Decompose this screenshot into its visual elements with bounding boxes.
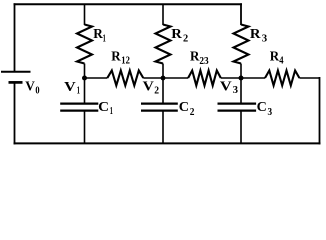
node V2 junction dot [161, 76, 166, 81]
svg-text:V: V [220, 79, 232, 94]
wire: column1 top stub [84, 4, 86, 25]
wire: node V2 down to C2 [162, 78, 164, 104]
wire: node V2 to R23 [163, 77, 188, 79]
resistor R4 [265, 71, 299, 86]
label R2 [171, 27, 188, 44]
capacitor C2 [141, 104, 178, 111]
svg-text:V: V [143, 80, 154, 95]
wire: R23 to node V3 [221, 77, 241, 79]
svg-text:R: R [250, 27, 262, 42]
resistor R23 [188, 71, 221, 86]
svg-text:C: C [98, 100, 109, 115]
wire: right vertical [319, 77, 321, 144]
svg-text:23: 23 [199, 55, 209, 67]
svg-text:12: 12 [121, 55, 130, 67]
resistor R12 [107, 71, 143, 86]
label R12 [111, 49, 130, 66]
wire: column1 stub to node V1 [84, 64, 86, 79]
resistor R2 [156, 25, 171, 64]
wire: C3 to bottom rail [240, 111, 242, 144]
label V2 [143, 80, 160, 97]
wire: C1 to bottom rail [84, 111, 86, 144]
wire: R4 to right vertical [299, 77, 319, 79]
svg-text:1: 1 [103, 32, 106, 44]
wire: column3 stub to node V3 [240, 64, 242, 79]
wire: column2 stub to node V2 [162, 64, 164, 79]
capacitor C3 [218, 104, 257, 111]
wire: node V3 to R4 [241, 77, 265, 79]
svg-text:3: 3 [233, 84, 239, 96]
wire: node V1 down to C1 [84, 78, 86, 104]
wire: node V1 to R12 [85, 77, 108, 79]
svg-text:C: C [179, 100, 189, 115]
svg-text:1: 1 [110, 105, 113, 117]
svg-text:R: R [111, 49, 121, 64]
battery V0 short plate [9, 81, 23, 84]
label V0 [25, 79, 40, 96]
node V1 junction dot [82, 76, 87, 81]
wire: node V3 down to C3 [240, 78, 242, 104]
wire: left vertical top lead to battery [14, 3, 16, 71]
wire: bottom rail [14, 142, 321, 144]
label R1 [93, 27, 106, 44]
wire: column2 top stub [162, 4, 164, 25]
svg-text:R: R [171, 27, 183, 42]
wire: R12 to node V2 [143, 77, 163, 79]
svg-text:3: 3 [262, 32, 268, 44]
svg-text:V: V [64, 80, 76, 95]
label C1 [98, 100, 113, 117]
label R3 [250, 27, 268, 44]
svg-text:0: 0 [35, 84, 40, 96]
capacitor C1 [60, 104, 98, 111]
label V3 [220, 79, 239, 96]
label R4 [270, 49, 284, 66]
label V1 [64, 80, 80, 96]
svg-text:2: 2 [183, 32, 189, 44]
label C2 [179, 100, 195, 118]
wire: top rail [14, 3, 243, 5]
svg-text:C: C [257, 100, 267, 115]
wire: C2 to bottom rail [162, 111, 164, 144]
label C3 [257, 100, 273, 118]
svg-text:4: 4 [279, 55, 284, 67]
resistor R3 [234, 25, 249, 64]
svg-text:2: 2 [190, 106, 195, 118]
svg-text:3: 3 [268, 106, 273, 118]
resistor R1 [77, 25, 92, 64]
svg-text:V: V [25, 79, 35, 94]
battery V0 long plate [1, 71, 31, 73]
wire: column3 top stub [240, 3, 242, 25]
label R23 [190, 49, 209, 67]
svg-text:2: 2 [154, 85, 159, 97]
svg-text:1: 1 [77, 84, 80, 96]
node V3 junction dot [239, 76, 244, 81]
wire: left vertical bottom lead from battery [14, 83, 16, 144]
